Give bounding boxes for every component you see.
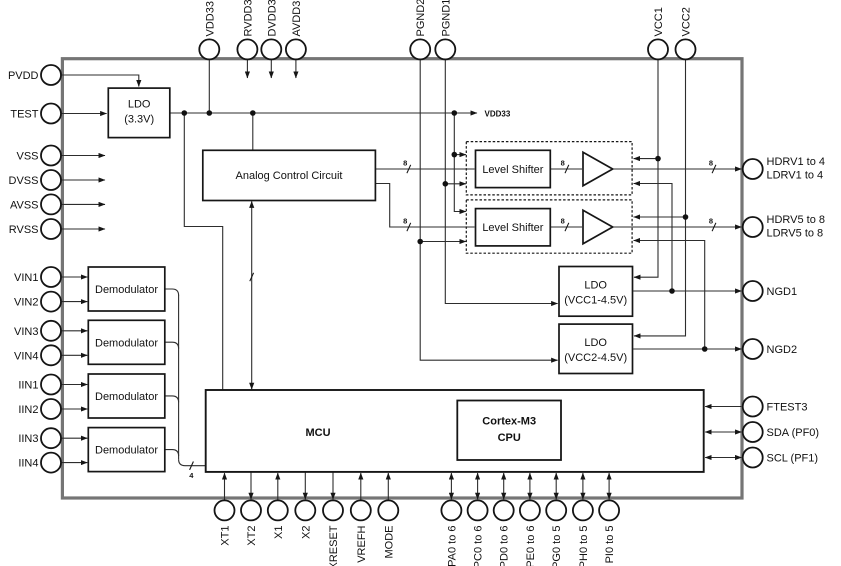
svg-text:8: 8 bbox=[709, 216, 713, 225]
svg-text:LDRV5 to 8: LDRV5 to 8 bbox=[767, 228, 824, 240]
svg-text:LDO: LDO bbox=[584, 280, 607, 292]
svg-text:AVSS: AVSS bbox=[10, 199, 39, 211]
svg-text:PGND2: PGND2 bbox=[415, 0, 427, 37]
svg-text:Demodulator: Demodulator bbox=[95, 284, 158, 296]
svg-text:8: 8 bbox=[561, 158, 565, 167]
svg-text:PE0 to 6: PE0 to 6 bbox=[525, 526, 537, 566]
svg-text:PD0 to 6: PD0 to 6 bbox=[499, 526, 511, 566]
svg-text:VIN1: VIN1 bbox=[14, 272, 38, 284]
svg-text:VDD33: VDD33 bbox=[204, 1, 216, 36]
svg-text:VIN2: VIN2 bbox=[14, 297, 38, 309]
svg-text:MCU: MCU bbox=[305, 427, 330, 439]
svg-text:DVDD3: DVDD3 bbox=[266, 0, 278, 37]
svg-text:VCC1: VCC1 bbox=[653, 7, 665, 36]
svg-text:LDRV1 to 4: LDRV1 to 4 bbox=[767, 170, 824, 182]
svg-text:PA0 to 6: PA0 to 6 bbox=[446, 526, 458, 566]
svg-text:XRESET: XRESET bbox=[328, 525, 340, 566]
svg-text:LDO: LDO bbox=[584, 337, 607, 349]
svg-text:AVDD3: AVDD3 bbox=[291, 1, 303, 37]
svg-text:SDA (PF0): SDA (PF0) bbox=[767, 427, 820, 439]
svg-text:NGD1: NGD1 bbox=[767, 286, 798, 298]
svg-text:Level Shifter: Level Shifter bbox=[482, 222, 543, 234]
svg-text:Analog Control Circuit: Analog Control Circuit bbox=[236, 170, 343, 182]
svg-text:(VCC2-4.5V): (VCC2-4.5V) bbox=[564, 352, 627, 364]
svg-text:8: 8 bbox=[709, 158, 713, 167]
svg-text:VIN4: VIN4 bbox=[14, 350, 38, 362]
svg-text:Demodulator: Demodulator bbox=[95, 445, 158, 457]
svg-text:Demodulator: Demodulator bbox=[95, 337, 158, 349]
svg-text:Demodulator: Demodulator bbox=[95, 391, 158, 403]
svg-text:FTEST3: FTEST3 bbox=[767, 402, 808, 414]
svg-text:LDO: LDO bbox=[128, 98, 151, 110]
svg-text:IIN3: IIN3 bbox=[18, 433, 38, 445]
svg-text:VREFH: VREFH bbox=[356, 525, 368, 562]
svg-text:HDRV1 to 4: HDRV1 to 4 bbox=[767, 156, 826, 168]
svg-text:MODE: MODE bbox=[383, 526, 395, 559]
svg-text:VIN3: VIN3 bbox=[14, 326, 38, 338]
svg-text:XT1: XT1 bbox=[220, 526, 232, 546]
svg-text:XT2: XT2 bbox=[246, 526, 258, 546]
svg-text:RVDD3: RVDD3 bbox=[242, 0, 254, 37]
svg-text:Cortex-M3: Cortex-M3 bbox=[482, 416, 536, 428]
svg-text:8: 8 bbox=[403, 158, 407, 167]
svg-text:CPU: CPU bbox=[498, 432, 521, 444]
svg-text:RVSS: RVSS bbox=[9, 224, 39, 236]
svg-text:HDRV5 to 8: HDRV5 to 8 bbox=[767, 214, 826, 226]
svg-text:PI0 to 5: PI0 to 5 bbox=[604, 526, 616, 564]
svg-text:DVSS: DVSS bbox=[9, 175, 39, 187]
svg-text:VCC2: VCC2 bbox=[681, 7, 693, 36]
svg-text:Level Shifter: Level Shifter bbox=[482, 164, 543, 176]
svg-text:8: 8 bbox=[403, 216, 407, 225]
svg-text:8: 8 bbox=[561, 216, 565, 225]
svg-text:X2: X2 bbox=[300, 526, 312, 539]
svg-text:(3.3V): (3.3V) bbox=[124, 113, 154, 125]
svg-text:X1: X1 bbox=[273, 526, 285, 539]
svg-text:NGD2: NGD2 bbox=[767, 344, 798, 356]
svg-text:PVDD: PVDD bbox=[8, 70, 39, 82]
svg-text:IIN2: IIN2 bbox=[18, 404, 38, 416]
svg-text:(VCC1-4.5V): (VCC1-4.5V) bbox=[564, 295, 627, 307]
svg-text:IIN1: IIN1 bbox=[18, 380, 38, 392]
svg-text:SCL (PF1): SCL (PF1) bbox=[767, 453, 819, 465]
svg-text:IIN4: IIN4 bbox=[18, 458, 38, 470]
svg-text:TEST: TEST bbox=[10, 109, 38, 121]
svg-text:PGND1: PGND1 bbox=[440, 0, 452, 37]
svg-text:PG0 to 5: PG0 to 5 bbox=[551, 526, 563, 566]
svg-text:VDD33: VDD33 bbox=[485, 109, 511, 118]
svg-text:PH0 to 5: PH0 to 5 bbox=[578, 526, 590, 566]
svg-text:PC0 to 6: PC0 to 6 bbox=[473, 526, 485, 566]
svg-text:VSS: VSS bbox=[16, 151, 38, 163]
